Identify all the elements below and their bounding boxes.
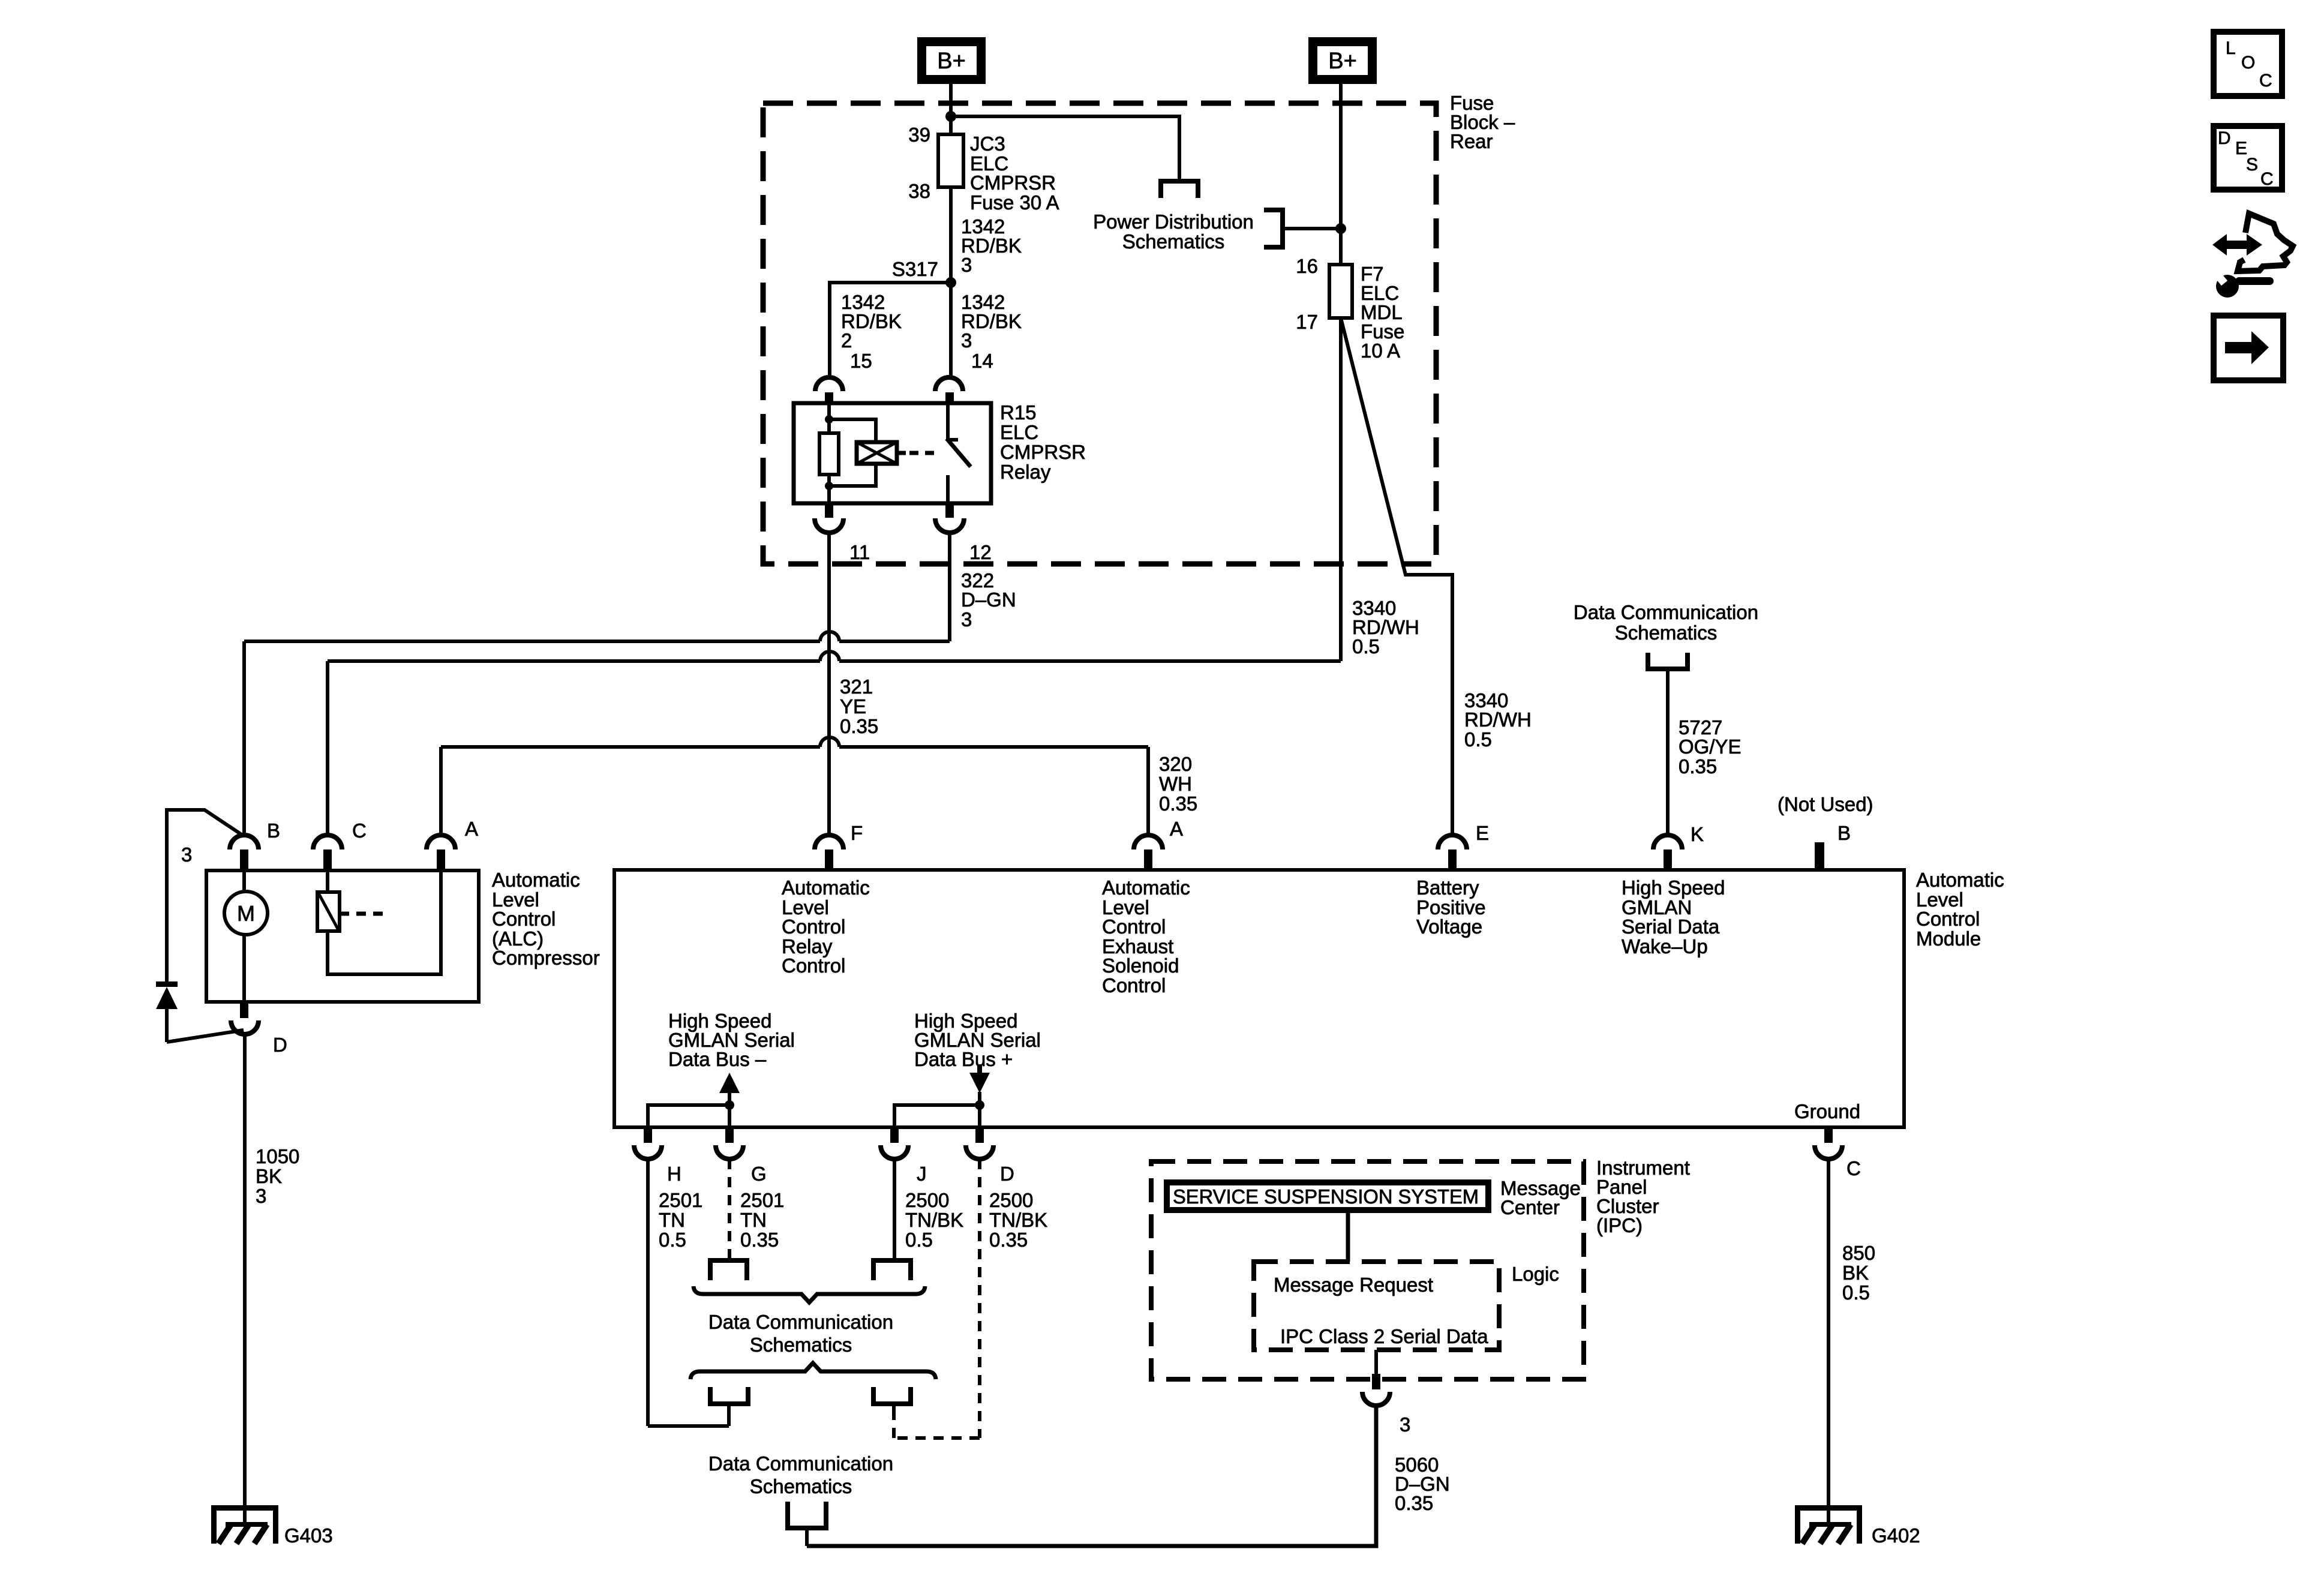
svg-text:Automatic: Automatic: [1102, 876, 1190, 899]
off-page connector to Data Communication Schematics (pin K feed): [1574, 601, 1758, 669]
svg-text:39: 39: [908, 124, 930, 146]
wire 320 WH 0.35 from compressor pin A to module pin A: [441, 747, 1197, 837]
compressor internal diode loop (wire 3): [167, 810, 244, 981]
wire 2501 TN 0.5 from pin H: [648, 1159, 729, 1426]
compressor pin C connector: [313, 819, 367, 870]
svg-text:TN/BK: TN/BK: [989, 1209, 1047, 1231]
wire 850 BK 0.5 from module pin C to ground G402: [1828, 1159, 1875, 1506]
svg-text:0.5: 0.5: [1464, 728, 1492, 751]
svg-text:TN: TN: [740, 1209, 767, 1231]
svg-text:3: 3: [256, 1185, 266, 1207]
svg-text:TN/BK: TN/BK: [905, 1209, 963, 1231]
svg-text:2: 2: [841, 329, 852, 352]
icon: LOC box: [2214, 32, 2282, 96]
svg-text:320: 320: [1159, 753, 1192, 775]
wire 1050 BK 3 to ground G403: [245, 1034, 299, 1506]
svg-text:Module: Module: [1916, 927, 1981, 950]
svg-text:Control: Control: [1102, 974, 1166, 996]
svg-text:321: 321: [840, 676, 873, 698]
svg-text:3: 3: [1400, 1413, 1410, 1436]
svg-text:Automatic: Automatic: [1916, 869, 2004, 891]
svg-text:10 A: 10 A: [1361, 340, 1400, 362]
svg-text:Rear: Rear: [1450, 130, 1493, 152]
svg-text:BK: BK: [256, 1165, 282, 1187]
splice S317: [892, 258, 956, 288]
ground G403: [211, 1505, 333, 1547]
data communication schematics reference (bottom): [708, 1452, 893, 1497]
svg-text:Solenoid: Solenoid: [1102, 954, 1179, 977]
svg-text:Logic: Logic: [1512, 1263, 1559, 1285]
svg-text:Schematics: Schematics: [750, 1475, 852, 1497]
svg-text:F: F: [851, 822, 863, 844]
compressor exhaust solenoid: [317, 870, 441, 974]
wire 2500 TN/BK 0.5 from pin J: [894, 1159, 963, 1258]
svg-text:K: K: [1691, 823, 1704, 845]
svg-text:1050: 1050: [256, 1145, 299, 1167]
svg-text:Relay: Relay: [1000, 461, 1051, 483]
svg-text:G403: G403: [284, 1524, 333, 1547]
svg-text:Control: Control: [492, 908, 556, 930]
svg-text:Fuse 30 A: Fuse 30 A: [970, 191, 1059, 214]
diode: [156, 981, 244, 1042]
wire from B+ 2 to fuse F7: [1339, 84, 1343, 265]
off-page connector to Power Distribution Schematics: [1093, 181, 1254, 253]
off-page connector (H wire) from data communication schematics: [710, 1387, 748, 1426]
svg-text:12: 12: [969, 541, 992, 563]
svg-text:2500: 2500: [989, 1189, 1033, 1211]
svg-text:C: C: [2259, 71, 2272, 91]
svg-text:0.5: 0.5: [905, 1229, 933, 1251]
automatic level control module box: [614, 869, 2004, 1127]
icon: DESC box: [2214, 126, 2282, 190]
instrument panel cluster dashed box: [1151, 1157, 1690, 1379]
svg-text:JC3: JC3: [970, 133, 1005, 155]
compressor pin B connector: [230, 819, 280, 870]
svg-text:SERVICE SUSPENSION SYSTEM: SERVICE SUSPENSION SYSTEM: [1173, 1185, 1479, 1208]
icon: diagnostic jump (arrow, connector outline, wrench): [2212, 214, 2293, 298]
svg-text:17: 17: [1296, 311, 1318, 333]
relay R15 ELC CMPRSR Relay box: [794, 401, 1086, 503]
off-page connector pin J to data communication schematics: [873, 1260, 911, 1280]
svg-text:3: 3: [181, 843, 192, 866]
module pin J connector: [881, 1127, 927, 1185]
svg-text:CMPRSR: CMPRSR: [1000, 441, 1086, 463]
svg-text:Voltage: Voltage: [1416, 915, 1482, 938]
node: junction at F7 feed: [1335, 223, 1346, 234]
wire 1342 RD/BK 3 from S317 to relay pin 14: [951, 283, 1022, 378]
svg-text:B+: B+: [937, 49, 966, 74]
svg-text:M: M: [237, 901, 255, 926]
svg-text:0.5: 0.5: [1352, 635, 1380, 658]
relay pin 15 connector: [815, 350, 872, 404]
wire 2500 TN/BK 0.35 from pin D (dashed): [894, 1159, 1047, 1438]
wire 322 D-GN 3 from relay pin 12 to compressor pin B: [244, 533, 1016, 837]
wire 3340 RD/WH 0.5 from F7 to module pin E: [1341, 318, 1532, 836]
svg-text:Control: Control: [782, 915, 845, 938]
svg-text:Compressor: Compressor: [492, 947, 600, 969]
svg-text:Serial Data: Serial Data: [1622, 915, 1720, 938]
brace under data communication schematics label: [690, 1363, 936, 1379]
svg-text:R15: R15: [1000, 401, 1037, 424]
svg-text:Center: Center: [1500, 1196, 1560, 1218]
svg-text:Message Request: Message Request: [1274, 1274, 1433, 1296]
module pin B (not used): [1777, 793, 1873, 870]
relay coil X-box (solenoid symbol) branch: [829, 419, 938, 486]
svg-text:15: 15: [850, 350, 872, 372]
svg-text:BK: BK: [1842, 1262, 1869, 1284]
svg-text:Schematics: Schematics: [1122, 230, 1225, 253]
svg-text:38: 38: [908, 180, 930, 202]
wire 1342 RD/BK 3 from JC3 to S317: [951, 187, 1022, 283]
fuse F7 ELC MDL Fuse 10 A: [1296, 255, 1404, 362]
svg-text:0.35: 0.35: [989, 1229, 1028, 1251]
module pin C connector (ground): [1815, 1127, 1861, 1179]
svg-text:Wake–Up: Wake–Up: [1622, 935, 1708, 957]
svg-text:High Speed: High Speed: [1622, 876, 1725, 899]
svg-text:D: D: [1000, 1163, 1014, 1185]
relay coil (resistor element): [819, 403, 839, 503]
GMLAN serial data bus + arrow inside module: [894, 1010, 1041, 1127]
off-page connector to IPC serial data wire: [788, 1502, 826, 1546]
svg-text:Battery: Battery: [1416, 876, 1479, 899]
relay pin 12 connector: [935, 503, 992, 563]
wire from message center to logic box: [1346, 1213, 1350, 1262]
svg-text:B: B: [1837, 822, 1851, 844]
off-page connector from Power Distribution Schematics to F7: [1264, 210, 1341, 247]
svg-text:Control: Control: [1916, 908, 1980, 930]
svg-text:B+: B+: [1328, 49, 1357, 74]
svg-text:Data Bus –: Data Bus –: [668, 1048, 767, 1070]
message center: SERVICE SUSPENSION SYSTEM box: [1167, 1177, 1581, 1218]
wire 1342 RD/BK 2 from S317 to relay pin 15: [830, 283, 951, 378]
svg-text:D–GN: D–GN: [961, 589, 1016, 611]
svg-text:C: C: [2260, 169, 2274, 189]
ALC compressor box: [206, 869, 600, 1002]
svg-text:2501: 2501: [740, 1189, 784, 1211]
svg-text:0.5: 0.5: [1842, 1281, 1870, 1304]
IPC pin 3 connector: [1362, 1350, 1410, 1436]
svg-text:E: E: [2235, 139, 2247, 158]
svg-text:14: 14: [971, 350, 993, 372]
svg-text:B: B: [267, 819, 280, 842]
svg-text:RD/WH: RD/WH: [1464, 709, 1532, 731]
svg-text:Data Communication: Data Communication: [708, 1452, 893, 1475]
wire 3340 RD/WH 0.5 from F7 down and left to compressor pin C: [328, 318, 1419, 837]
svg-text:Automatic: Automatic: [782, 876, 870, 899]
svg-text:11: 11: [849, 541, 870, 563]
B+ terminal 1: [917, 37, 986, 84]
svg-text:0.35: 0.35: [1679, 755, 1717, 778]
svg-text:0.5: 0.5: [659, 1229, 686, 1251]
off-page connector (D wire) from data communication schematics: [873, 1387, 911, 1414]
fuse JC3 ELC CMPRSR Fuse 30 A: [908, 124, 1059, 214]
wire 321 YE 0.35 from relay pin 11 to module pin F: [829, 533, 878, 836]
module pin G connector: [716, 1127, 767, 1185]
module pin A connector: [1102, 818, 1190, 996]
module ground label: [1794, 1100, 1860, 1122]
svg-text:CMPRSR: CMPRSR: [970, 172, 1056, 194]
svg-text:Data Bus +: Data Bus +: [914, 1048, 1013, 1070]
svg-text:3: 3: [961, 254, 972, 276]
svg-text:ELC: ELC: [1000, 421, 1038, 443]
wire 2501 TN 0.35 from pin G (dashed): [729, 1159, 784, 1258]
icon: arrow box: [2214, 316, 2283, 380]
svg-text:Automatic: Automatic: [492, 869, 580, 891]
svg-text:A: A: [465, 818, 478, 840]
svg-text:Schematics: Schematics: [750, 1334, 852, 1356]
svg-text:A: A: [1170, 818, 1183, 840]
compressor pin A connector: [427, 818, 478, 870]
node: junction of B+ feed and power distribution branch: [945, 111, 956, 122]
module pin K connector: [1622, 823, 1725, 957]
fuse block dashed box (Fuse Block - Rear): [763, 92, 1515, 564]
svg-text:0.35: 0.35: [1395, 1492, 1433, 1514]
wire to power distribution reference: [951, 116, 1179, 181]
wire hop: 3340 crossing over wire 321: [820, 652, 839, 661]
svg-text:G: G: [751, 1163, 767, 1185]
B+ terminal 2: [1308, 37, 1377, 84]
svg-text:J: J: [917, 1163, 927, 1185]
svg-text:0.35: 0.35: [740, 1229, 779, 1251]
svg-text:C: C: [352, 819, 367, 842]
svg-text:E: E: [1476, 822, 1489, 844]
svg-text:(IPC): (IPC): [1596, 1214, 1643, 1236]
svg-text:D: D: [273, 1034, 287, 1056]
wire hop: 320 crossing over wire 321: [820, 737, 839, 747]
relay pin 14 connector: [935, 350, 993, 404]
compressor motor M: [224, 870, 268, 1002]
wire hop: 322 crossing over wire 321: [820, 632, 839, 641]
svg-text:Data Communication: Data Communication: [1574, 601, 1758, 623]
svg-text:Power Distribution: Power Distribution: [1093, 211, 1254, 233]
svg-text:G402: G402: [1872, 1524, 1920, 1547]
module pin F connector: [782, 822, 870, 977]
svg-text:S317: S317: [892, 258, 938, 280]
svg-text:Schematics: Schematics: [1615, 622, 1718, 644]
svg-text:Control: Control: [1102, 915, 1166, 938]
svg-text:Ground: Ground: [1794, 1100, 1860, 1122]
svg-text:D: D: [2218, 128, 2231, 148]
off-page connector pin G to data communication schematics: [710, 1260, 747, 1280]
svg-text:Data Communication: Data Communication: [708, 1311, 893, 1333]
svg-text:3: 3: [961, 608, 972, 631]
svg-text:(Not Used): (Not Used): [1777, 793, 1873, 815]
brace over G and J wires (data communication schematics): [693, 1286, 925, 1356]
svg-text:850: 850: [1842, 1242, 1875, 1264]
svg-text:IPC Class 2 Serial Data: IPC Class 2 Serial Data: [1280, 1325, 1488, 1347]
svg-text:0.35: 0.35: [840, 715, 878, 737]
svg-text:OG/YE: OG/YE: [1679, 736, 1742, 758]
svg-text:TN: TN: [659, 1209, 685, 1231]
svg-text:0.35: 0.35: [1159, 792, 1197, 815]
relay switch contact: [947, 403, 971, 503]
svg-text:Control: Control: [782, 954, 845, 977]
svg-text:L: L: [2226, 38, 2236, 58]
svg-text:16: 16: [1296, 255, 1318, 277]
svg-text:S: S: [2246, 155, 2258, 175]
ground G402: [1795, 1505, 1920, 1547]
svg-text:C: C: [1846, 1157, 1861, 1179]
relay pin 11 connector: [815, 503, 870, 563]
svg-text:2500: 2500: [905, 1189, 949, 1211]
module pin E connector: [1416, 822, 1489, 938]
GMLAN serial data bus - arrow inside module: [648, 1010, 795, 1127]
wire 5727 OG/YE 0.35 to module pin K: [1668, 669, 1742, 836]
wire 5060 D-GN 0.35 from IPC pin 3: [807, 1406, 1450, 1546]
svg-text:3: 3: [961, 329, 972, 352]
module pin D connector: [966, 1127, 1014, 1185]
svg-text:YE: YE: [840, 695, 866, 718]
svg-text:H: H: [667, 1163, 681, 1185]
svg-text:WH: WH: [1159, 773, 1192, 795]
wire from B+ 1 to fuse JC3: [949, 84, 953, 134]
svg-text:2501: 2501: [659, 1189, 702, 1211]
module pin H connector: [634, 1127, 681, 1185]
compressor pin D connector: [231, 1002, 287, 1056]
svg-text:O: O: [2241, 53, 2255, 73]
IPC logic dashed box: [1254, 1262, 1559, 1350]
